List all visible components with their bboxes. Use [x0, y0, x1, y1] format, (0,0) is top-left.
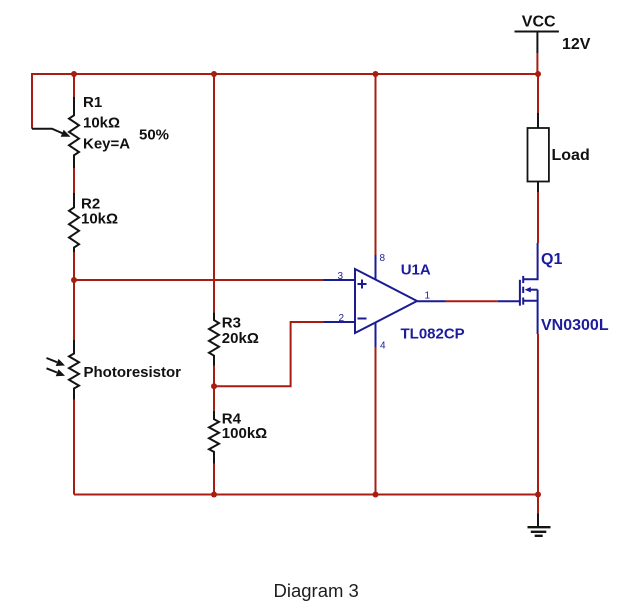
- op-amp plus sign: [358, 280, 367, 289]
- op-amp minus sign: [358, 318, 367, 320]
- wire load to mosfet drain: [537, 192, 539, 243]
- wire op-amp pin 8 net: [375, 74, 377, 255]
- svg-text:Diagram 3: Diagram 3: [274, 580, 359, 601]
- node bottom rail R4: [211, 492, 217, 498]
- photoresistor light arrow 2: [47, 368, 66, 376]
- svg-text:Photoresistor: Photoresistor: [84, 364, 182, 381]
- svg-text:50%: 50%: [139, 127, 169, 144]
- wire between R1 and R2: [73, 168, 75, 193]
- wire noninverting input net: [74, 279, 324, 281]
- VCC power symbol: [515, 32, 559, 54]
- load resistor box: [528, 113, 549, 192]
- transistor Q1 gate lead: [498, 300, 520, 302]
- transistor Q1 gate bar: [519, 280, 521, 306]
- wire top rail with left drop: [32, 74, 538, 129]
- svg-text:R1: R1: [83, 94, 102, 111]
- wire between R2 and photoresistor: [73, 252, 75, 340]
- node top rail R1 branch: [71, 71, 77, 77]
- wire left vertical segment junction to R1: [73, 74, 75, 97]
- wire op-amp pin 4 net to bottom rail: [375, 347, 377, 495]
- resistor R4: [209, 411, 219, 464]
- wire bottom rail: [74, 494, 538, 496]
- svg-text:3: 3: [338, 271, 344, 282]
- svg-text:U1A: U1A: [401, 262, 431, 279]
- resistor R3: [209, 312, 219, 365]
- svg-text:2: 2: [339, 313, 345, 324]
- svg-text:20kΩ: 20kΩ: [222, 330, 259, 347]
- op-amp pin 2 stub: [324, 321, 356, 323]
- transistor Q1 body arrow: [525, 287, 538, 292]
- potentiometer wiper arrow: [32, 129, 71, 137]
- op-amp pin 3 stub: [324, 279, 356, 281]
- svg-text:8: 8: [380, 253, 386, 264]
- svg-text:Load: Load: [552, 147, 590, 164]
- svg-text:1: 1: [425, 291, 431, 302]
- transistor Q1 source lead: [524, 290, 538, 334]
- wire mosfet source to bottom rail: [537, 334, 539, 495]
- transistor Q1 channel bars: [522, 276, 524, 305]
- resistor R1 potentiometer body: [69, 97, 79, 168]
- wire mid vertical top to R3: [213, 74, 215, 312]
- wire VCC to top rail: [536, 53, 538, 74]
- node top rail pin8 branch: [373, 71, 379, 77]
- label R3 value: [222, 315, 259, 348]
- op-amp pin 4 stub: [375, 322, 377, 347]
- svg-text:4: 4: [380, 341, 386, 352]
- node bottom rail ground: [535, 492, 541, 498]
- op-amp pin 1 output stub: [417, 300, 446, 302]
- op-amp pin 8 stub: [375, 255, 377, 280]
- svg-text:10kΩ: 10kΩ: [81, 211, 118, 228]
- resistor R2: [69, 193, 79, 252]
- wire photoresistor to bottom rail: [73, 400, 75, 495]
- svg-text:VN0300L: VN0300L: [541, 317, 609, 334]
- node top rail mid branch: [211, 71, 217, 77]
- node top rail VCC branch: [535, 71, 541, 77]
- svg-text:Q1: Q1: [541, 251, 562, 268]
- ground: [528, 514, 551, 536]
- wire op-amp output to gate: [446, 300, 498, 302]
- node noninverting tap: [71, 277, 77, 283]
- label R1 value: [83, 94, 130, 152]
- svg-text:TL082CP: TL082CP: [401, 326, 465, 343]
- wire top rail junction to load: [537, 74, 539, 113]
- wire R3 to R4 through junction: [213, 366, 215, 411]
- svg-text:100kΩ: 100kΩ: [222, 425, 267, 442]
- node bottom rail pin4: [373, 492, 379, 498]
- photoresistor body: [69, 340, 79, 400]
- wire R4 to bottom rail: [213, 464, 215, 495]
- node R3 R4 divider tap: [211, 383, 217, 389]
- wire inverting input net: [214, 322, 324, 386]
- svg-text:12V: 12V: [562, 36, 591, 53]
- op-amp U1A triangle: [355, 269, 417, 333]
- svg-text:10kΩ: 10kΩ: [83, 114, 120, 131]
- svg-text:VCC: VCC: [522, 14, 556, 31]
- transistor Q1 drain lead: [524, 243, 538, 279]
- wire bottom rail to ground: [537, 495, 539, 514]
- svg-text:Key=A: Key=A: [83, 135, 130, 152]
- label R2 value: [81, 196, 118, 228]
- label R4 value: [222, 410, 267, 442]
- svg-text:R3: R3: [222, 315, 241, 332]
- photoresistor light arrow 1: [47, 358, 66, 366]
